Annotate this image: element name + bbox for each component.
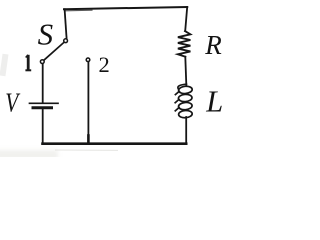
wire L to bottom: [185, 117, 187, 144]
faint scan smudge left edge: [0, 54, 9, 77]
wire top-left drop to switch pivot: [65, 9, 67, 38]
svg-text:R: R: [204, 30, 222, 60]
switch S pivot contact: [64, 39, 68, 43]
wire top doubled scan stroke: [66, 9, 92, 12]
junction blob at bottom node: [87, 136, 90, 144]
label 1: [25, 55, 31, 71]
wire contact1 to battery: [42, 64, 44, 103]
battery V short plate: [33, 106, 52, 109]
switch contact 2: [86, 58, 90, 62]
switch contact 1: [40, 60, 44, 64]
wire contact2 branch: [87, 62, 89, 144]
faint scan line bottom middle: [55, 149, 118, 151]
switch S blade: [44, 42, 64, 60]
inductor L: [175, 84, 192, 118]
battery V long plate: [30, 102, 59, 104]
svg-text:L: L: [205, 84, 223, 118]
wire bottom: [43, 142, 187, 145]
wire top-right drop: [185, 7, 187, 31]
svg-text:2: 2: [99, 52, 110, 77]
resistor R: [178, 31, 191, 57]
svg-text:S: S: [38, 17, 54, 52]
svg-text:V: V: [5, 88, 21, 118]
wire top: [64, 7, 187, 9]
wire R to L: [185, 57, 186, 85]
wire battery to bottom: [42, 110, 44, 144]
